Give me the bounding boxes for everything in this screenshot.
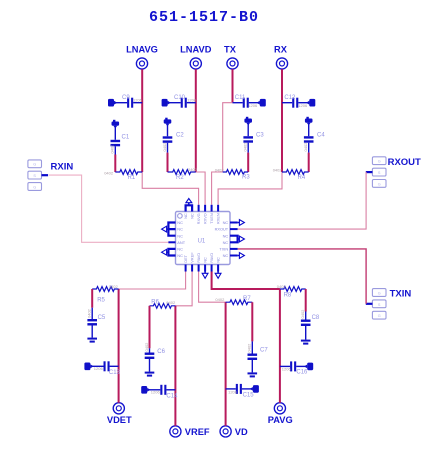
pin labels right	[215, 220, 229, 258]
svg-text:C2: C2	[176, 133, 184, 139]
capacitor C3	[243, 117, 265, 153]
svg-text:VREF: VREF	[185, 427, 210, 437]
svg-text:1206: 1206	[133, 97, 143, 102]
wire RX net	[281, 69, 283, 172]
pin REF (bottom 2)	[191, 265, 193, 272]
svg-text:0402: 0402	[188, 167, 198, 172]
capacitor C15	[226, 384, 259, 399]
terminal VDET	[107, 403, 132, 426]
pin labels left	[177, 220, 185, 258]
pin NC (bottom 6)	[217, 265, 219, 272]
pin PAVD (bottom 3)	[198, 265, 200, 272]
svg-text:PAVD: PAVD	[209, 253, 214, 263]
wire LNAVG net	[141, 69, 143, 172]
pin TXIN	[230, 248, 238, 250]
capacitor C7	[247, 341, 269, 372]
svg-text:C8: C8	[312, 315, 320, 321]
capacitor C13	[84, 361, 120, 376]
svg-text:G: G	[33, 163, 36, 167]
svg-text:S: S	[378, 303, 381, 307]
resistor R6	[150, 299, 176, 308]
wire PAVD net B	[212, 272, 280, 290]
svg-text:R7: R7	[243, 296, 251, 302]
svg-text:0402: 0402	[215, 167, 225, 172]
arrow right (NC r6)	[238, 253, 245, 259]
pin RXOUT	[230, 228, 238, 230]
svg-text:NC: NC	[223, 240, 229, 245]
svg-text:LNAVG: LNAVG	[126, 45, 158, 55]
svg-text:G: G	[378, 291, 381, 295]
svg-text:0402: 0402	[104, 171, 114, 176]
svg-text:1206: 1206	[282, 367, 292, 372]
top NC bracket pins 1-2	[186, 205, 193, 211]
arrow right (NC r1)	[238, 220, 245, 226]
wire C4 link	[308, 153, 310, 172]
wire VD net	[225, 302, 227, 426]
svg-text:RXIN: RXIN	[51, 161, 74, 172]
ground C7	[248, 372, 258, 377]
svg-text:0402: 0402	[109, 284, 119, 289]
wire C3 link	[247, 153, 249, 172]
svg-text:1206: 1206	[94, 366, 104, 371]
svg-text:G: G	[378, 314, 381, 318]
svg-text:C1: C1	[122, 135, 130, 141]
svg-text:LNAVD: LNAVD	[180, 45, 212, 55]
wire C1 link	[114, 155, 116, 173]
wire TX coupling	[223, 103, 233, 172]
wire C5 link	[91, 289, 93, 308]
svg-text:C15: C15	[243, 392, 255, 398]
svg-text:R8: R8	[284, 292, 292, 298]
svg-text:C7: C7	[260, 348, 268, 354]
svg-text:0402: 0402	[247, 343, 252, 353]
svg-text:RXEN: RXEN	[216, 213, 221, 224]
wire TX net	[232, 69, 234, 103]
svg-text:R1: R1	[128, 175, 136, 181]
wire LNAVG to pin RXVG	[142, 172, 198, 205]
svg-text:R2: R2	[176, 175, 184, 181]
svg-text:RXVG: RXVG	[196, 213, 201, 224]
svg-text:1206: 1206	[151, 389, 161, 394]
capacitor C6	[144, 342, 166, 372]
svg-text:TXIN: TXIN	[219, 247, 228, 252]
wire TX to pin TXEN	[212, 172, 223, 205]
pin NC (bottom 4)	[204, 265, 206, 272]
svg-text:1206: 1206	[187, 97, 197, 102]
terminal PAVG	[268, 403, 293, 426]
svg-text:C14: C14	[166, 394, 178, 400]
ground C8	[301, 340, 311, 345]
svg-text:PAVD: PAVD	[196, 253, 201, 263]
svg-text:C6: C6	[157, 349, 165, 355]
svg-text:0402: 0402	[162, 142, 167, 152]
arrow up (top NC)	[186, 199, 192, 206]
connector RXIN	[28, 160, 73, 191]
svg-text:NC: NC	[183, 213, 188, 219]
svg-text:651-1517-B0: 651-1517-B0	[149, 9, 259, 26]
svg-text:0402: 0402	[144, 342, 149, 352]
right NC bracket pins 3-4	[230, 236, 238, 243]
connector RXOUT	[366, 157, 421, 188]
pin labels bottom	[183, 252, 221, 263]
svg-text:NC: NC	[223, 233, 229, 238]
svg-text:C3: C3	[256, 133, 264, 139]
wire C2 link	[167, 153, 169, 172]
arrow right (NC r3-4)	[238, 236, 245, 242]
wire PAVG net	[279, 289, 281, 403]
capacitor C8	[300, 309, 320, 340]
wire REF net	[175, 272, 192, 306]
svg-text:PAVG: PAVG	[268, 415, 293, 425]
pin ANT	[168, 241, 175, 243]
svg-text:TXEN: TXEN	[209, 213, 214, 224]
resistor R4	[273, 167, 309, 181]
svg-text:RXVD: RXVD	[203, 213, 208, 224]
pin RXEN (top 6)	[217, 205, 219, 212]
svg-text:0402: 0402	[87, 308, 92, 318]
svg-text:U1: U1	[198, 238, 206, 244]
svg-text:NC: NC	[190, 213, 195, 219]
capacitor C5	[87, 308, 106, 338]
svg-text:VD: VD	[235, 427, 248, 437]
terminal RX	[274, 45, 288, 70]
ground C6	[145, 372, 155, 377]
wire TXIN net	[238, 249, 367, 304]
svg-text:G: G	[33, 185, 36, 189]
svg-text:1206: 1206	[248, 103, 258, 108]
capacitor C2	[162, 118, 184, 153]
svg-text:RXOUT: RXOUT	[388, 157, 421, 168]
wire PAVD net A	[199, 272, 226, 303]
wire C7 link	[251, 302, 253, 341]
svg-text:0402: 0402	[273, 167, 283, 172]
svg-text:RX: RX	[274, 45, 288, 55]
resistor R2	[168, 167, 198, 181]
pin DET (bottom 1)	[185, 265, 187, 272]
capacitor C1	[110, 120, 130, 155]
wire VDET net	[118, 289, 120, 403]
svg-text:C4: C4	[317, 133, 325, 139]
svg-text:NC: NC	[223, 253, 229, 258]
terminal VREF	[170, 426, 210, 437]
svg-text:TXIN: TXIN	[390, 289, 412, 300]
pin RXVD (top 4)	[204, 205, 206, 212]
pin TXEN (top 5)	[211, 205, 213, 212]
capacitor C11	[233, 95, 266, 108]
arrow left (NC 5-6)	[162, 249, 169, 255]
pin NC right1	[230, 222, 238, 224]
svg-text:G: G	[378, 182, 381, 186]
svg-text:R6: R6	[151, 299, 159, 305]
svg-text:RXOUT: RXOUT	[215, 227, 229, 232]
capacitor C14	[141, 385, 178, 400]
svg-text:VDET: VDET	[107, 415, 132, 425]
resistor R3	[215, 167, 251, 180]
svg-text:C11: C11	[235, 95, 246, 101]
resistor R1	[104, 170, 142, 182]
wire DET net	[119, 272, 186, 290]
svg-text:R3: R3	[242, 175, 250, 181]
resistor R7	[215, 296, 252, 304]
svg-text:0402: 0402	[303, 142, 308, 152]
terminal LNAVD	[180, 45, 212, 70]
svg-text:1206: 1206	[298, 103, 308, 108]
capacitor C12	[282, 95, 315, 108]
svg-text:0402: 0402	[166, 300, 176, 305]
svg-text:R5: R5	[97, 298, 105, 304]
wire LNAVD net	[195, 69, 197, 172]
terminal LNAVG	[126, 45, 158, 70]
svg-text:S: S	[378, 171, 381, 175]
pin labels top	[183, 213, 221, 224]
arrow down pin4	[202, 272, 208, 279]
connector TXIN	[366, 289, 412, 319]
op-amp U1 body	[176, 212, 231, 265]
terminal VD	[220, 426, 248, 437]
wire C8 link	[305, 289, 307, 312]
arrow left (NC 1-3)	[162, 226, 169, 232]
svg-text:C10: C10	[174, 95, 186, 101]
pin RXVG (top 3)	[198, 205, 200, 212]
arrow down pin6	[215, 272, 221, 279]
wire VREF net	[174, 306, 176, 426]
resistor R5	[92, 284, 118, 304]
svg-text:DET: DET	[183, 254, 188, 262]
svg-text:0402: 0402	[300, 309, 305, 319]
left NC bracket pins 1-3	[168, 223, 175, 236]
svg-text:0402: 0402	[110, 144, 115, 154]
svg-text:C5: C5	[98, 315, 106, 321]
terminal TX	[224, 45, 238, 70]
left NC bracket pins 5-6	[168, 249, 175, 256]
svg-text:NC: NC	[177, 220, 183, 225]
svg-text:NC: NC	[177, 247, 183, 252]
svg-text:TX: TX	[224, 45, 237, 55]
wire RXIN to ANT	[49, 175, 168, 242]
capacitor C10	[162, 95, 197, 108]
svg-text:NC: NC	[223, 220, 229, 225]
wire RXOUT net	[238, 172, 367, 229]
svg-text:G: G	[378, 160, 381, 164]
svg-text:C16: C16	[296, 369, 308, 375]
capacitor C9	[108, 95, 143, 108]
svg-text:0402: 0402	[243, 142, 248, 152]
capacitor C16	[280, 361, 313, 375]
svg-text:NC: NC	[216, 257, 221, 263]
svg-text:ANT: ANT	[177, 240, 185, 245]
wire LNAVD to pin RXVD	[196, 172, 205, 205]
svg-text:NC: NC	[203, 257, 208, 263]
svg-text:R4: R4	[298, 175, 306, 181]
wire C6 link	[149, 306, 151, 349]
svg-text:0402: 0402	[215, 297, 225, 302]
pin NC right6	[230, 255, 238, 257]
svg-text:C9: C9	[122, 95, 130, 101]
svg-text:VREF: VREF	[190, 252, 195, 263]
svg-text:C12: C12	[284, 95, 296, 101]
svg-text:NC: NC	[177, 227, 183, 232]
resistor R8	[277, 284, 306, 298]
wire RX to pin RXEN	[218, 172, 282, 205]
svg-text:0402: 0402	[277, 284, 287, 289]
svg-text:C13: C13	[109, 370, 121, 376]
svg-text:NC: NC	[177, 233, 183, 238]
pin PAVD (bottom 5)	[211, 265, 213, 272]
capacitor C4	[303, 117, 325, 153]
ground C5	[87, 338, 97, 343]
svg-text:S: S	[33, 174, 36, 178]
svg-text:1206: 1206	[228, 389, 238, 394]
